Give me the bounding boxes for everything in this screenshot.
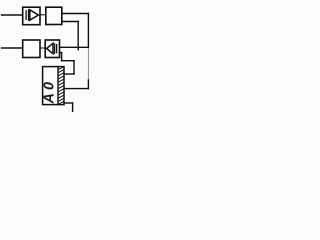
wire: into connector right side upper <box>64 88 88 90</box>
wire: row-2 input from left edge <box>2 47 23 49</box>
wire: U4 lower output stub <box>60 52 62 54</box>
wire: drop down <box>61 53 63 61</box>
box U3 (line coupling block, empty) <box>23 40 40 58</box>
wire: vertical down to connector pin <box>73 61 75 74</box>
amplifier triangle pointing left (inside U4) <box>47 43 53 53</box>
wire: right vertical bus down (faint middle) <box>87 47 89 80</box>
connector hatched strip <box>58 67 64 105</box>
wire: U2 lower output to right <box>62 21 78 23</box>
wire: horizontal to x74 <box>62 60 74 62</box>
amplifier triangle pointing right (inside U1) <box>30 10 39 20</box>
box U2 (line coupling block, empty) <box>46 7 62 24</box>
wire: right vertical bus down (upper) <box>87 14 89 48</box>
wire: row-1 input from left edge <box>2 14 23 16</box>
wire: U4 upper output long horizontal <box>60 46 89 48</box>
wire: stub U1 to U2 <box>40 14 46 16</box>
wire: into connector right side <box>64 73 74 75</box>
wire: down to bottom edge <box>72 103 74 112</box>
connector A0 outer box <box>43 67 64 105</box>
capacitor bar (inside U1) <box>25 11 27 20</box>
capacitor bar 2 (inside U4) <box>56 45 58 53</box>
wire: right vertical bus down (lower) <box>87 80 89 89</box>
connector A0 divider line <box>57 67 59 105</box>
wire: U2 upper output to right <box>62 13 89 15</box>
wire: stub U3 to U4 <box>40 47 45 49</box>
wire: vertical drop to row-2 bus <box>77 22 79 50</box>
capacitor bar 2 (inside U1) <box>28 10 30 20</box>
box U4 (receive amplifier block) <box>45 40 59 58</box>
wire: connector lower output <box>64 102 73 104</box>
box U1 (transmit amplifier block) <box>23 7 40 25</box>
capacitor bar (inside U4) <box>54 44 56 53</box>
svg-text:A0: A0 <box>42 79 58 105</box>
